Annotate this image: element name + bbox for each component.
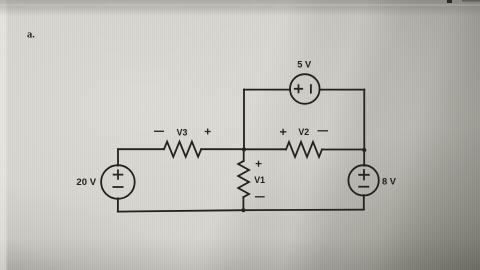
polarity minus of V3 bbox=[154, 130, 164, 132]
polarity plus of V2 bbox=[280, 129, 286, 135]
polarity plus of source VS3 bbox=[358, 169, 369, 180]
polarity plus of V1 bbox=[256, 161, 262, 167]
wire: V1 top lead bbox=[243, 149, 245, 161]
node: right junction bbox=[362, 148, 366, 152]
svg-text:8 V: 8 V bbox=[382, 176, 397, 186]
svg-text:20 V: 20 V bbox=[76, 177, 96, 188]
svg-text:V3: V3 bbox=[177, 127, 188, 137]
polarity plus of V3 bbox=[205, 129, 211, 135]
resistor V2 bbox=[286, 142, 322, 157]
voltage source VS3 8 V bbox=[348, 165, 378, 195]
wire: top rail right segment bbox=[320, 89, 365, 91]
wire: main rail V2 to right branch bbox=[322, 149, 364, 151]
voltage source VS2 5 V bbox=[290, 74, 320, 104]
svg-text:a.: a. bbox=[27, 30, 35, 41]
polarity plus of source VS2 bbox=[294, 84, 303, 93]
wire: bottom rail bbox=[118, 210, 364, 212]
wire: 20V source bottom lead bbox=[117, 198, 119, 211]
wire: main rail from 20V to V3 bbox=[118, 148, 164, 150]
polarity minus (rotated bar) of source VS2 bbox=[310, 84, 312, 93]
polarity minus of source VS1 bbox=[113, 186, 124, 188]
wire: center vertical (top rail to center node) bbox=[243, 90, 245, 150]
wire: right branch vertical (top rail to main rail) bbox=[363, 90, 365, 150]
wire: main rail center node to V2 bbox=[244, 148, 286, 150]
top-edge artifact: dark sliver bbox=[462, 0, 480, 2]
svg-text:5 V: 5 V bbox=[297, 60, 312, 70]
node: center junction bbox=[242, 147, 246, 151]
svg-text:V2: V2 bbox=[298, 127, 309, 137]
polarity minus of V2 bbox=[318, 130, 329, 132]
polarity plus of source VS1 bbox=[113, 169, 124, 179]
resistor V3 bbox=[164, 142, 201, 157]
wire: top rail left segment bbox=[244, 89, 290, 91]
voltage source VS1 20 V bbox=[101, 165, 135, 199]
wire: V1 bottom lead bbox=[242, 197, 244, 210]
wire: 8V source bottom lead bbox=[363, 195, 365, 210]
wire: 20V source top lead bbox=[117, 149, 119, 165]
polarity minus of V1 bbox=[255, 196, 265, 198]
wire: main rail V3 to center node bbox=[201, 148, 244, 150]
resistor V1 bbox=[238, 161, 249, 197]
polarity minus of source VS3 bbox=[358, 186, 369, 188]
wire: 8V source top lead bbox=[363, 150, 365, 166]
node: bottom junction bbox=[241, 208, 245, 212]
top-edge artifact: cut-off glyph bbox=[447, 0, 452, 3]
svg-text:V1: V1 bbox=[254, 175, 265, 185]
